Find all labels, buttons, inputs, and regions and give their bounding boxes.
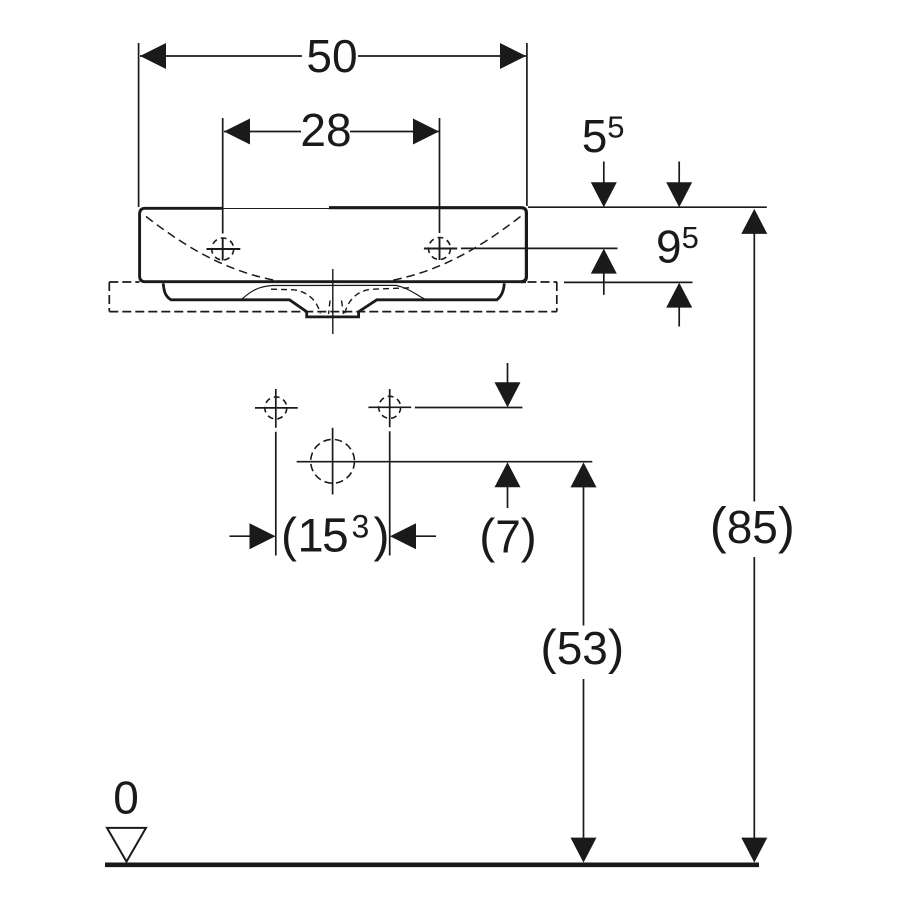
mid fixture horizontal reference line [297,461,593,463]
dimension 28 line right segment [350,131,439,133]
mid fixture tap hole right crosshair horizontal [368,406,411,408]
mid fixture tap hole right crosshair vertical [389,389,391,427]
installation dashed rectangle right edge [556,282,558,312]
dimension 50 line left segment [140,55,302,57]
washbasin inner bowl dashed arc right [387,217,521,282]
svg-text:28: 28 [300,104,351,156]
drain funnel dashed inner left [329,301,331,315]
dimension 85 line lower segment [753,557,755,839]
dimension 7 upper reference line [415,407,523,409]
dimension 50 arrow right [500,43,526,69]
svg-text:(: ( [281,510,297,563]
svg-text:(53): (53) [540,621,624,675]
tap hole left dashed circle [212,238,234,260]
dimension 7 up arrow tail [507,487,509,508]
dimension 9.5 down arrow [666,182,692,207]
installation dashed rectangle top stub left [109,281,139,283]
dimension 85 line upper segment [753,233,755,501]
dimension 5.5 up arrow [591,249,617,274]
dimension 50 extension line right [526,43,528,206]
dimension 5.5 down arrow tail [603,162,605,184]
dimension 50 arrow left [140,43,166,69]
mid fixture large dashed circle [311,439,355,483]
floor line [105,862,759,867]
washbasin inner bowl dashed arc left [146,217,280,282]
dimension 28 arrow right [413,119,439,145]
tap hole right crosshair horizontal [424,248,457,250]
dimension 28 line left segment [224,131,301,133]
svg-text:(85): (85) [710,497,795,554]
dimension 53 bottom arrow [571,838,597,863]
dimension 53 top arrow [571,462,597,487]
svg-text:): ) [374,510,390,563]
svg-text:3: 3 [352,509,370,545]
dimension 5.5 up arrow tail [603,273,605,295]
tap hole left crosshair horizontal [207,248,241,250]
reference line basin bottom height [564,281,693,283]
mid fixture large circle vertical crosshair [332,428,334,495]
reference line rim height [528,206,767,208]
dimension 28 arrow left [224,119,250,145]
dimension 85 top arrow [741,209,767,234]
dimension 15.3 left arrow tail [230,535,252,537]
dimension 53 line lower segment [583,679,585,839]
drain funnel dashed inner right [342,301,344,315]
washbasin lower body with drain boss [163,283,504,317]
tap hole right vertical / dim 28 extension [439,118,441,233]
washbasin interior bottom thin curve [242,285,424,299]
installation dashed rectangle top stub right [528,281,558,283]
mid fixture right extension line [389,431,391,555]
washbasin rim thin top segment [221,208,330,210]
svg-text:0: 0 [113,772,139,824]
dimension 15.3 right arrow tail [415,535,436,537]
dimension 50 extension line left [138,43,140,207]
dimension 7 down arrow tail [507,363,509,383]
dimension 15.3 right arrow [390,523,416,549]
mid fixture left extension line [275,432,277,556]
tap hole left vertical / dim 28 extension [222,118,224,234]
dimension 7 down arrow [495,382,521,407]
dimension 9.5 up arrow tail [678,307,680,327]
tap hole right dashed circle [429,238,451,260]
washbasin centerline [332,269,334,334]
dimension 53 line upper segment [583,487,585,626]
svg-text:1: 1 [298,509,324,562]
installation dashed rectangle bottom edge [109,311,557,313]
drain funnel dashed outer left [271,289,320,313]
installation dashed rectangle left edge [108,282,110,312]
svg-text:(7): (7) [479,511,537,564]
tap hole right crosshair vertical [439,237,441,260]
dimension 5.5 down arrow [591,182,617,207]
drain funnel dashed outer right [345,288,409,314]
svg-text:5: 5 [322,510,349,563]
mid fixture tap hole left dashed circle [265,397,287,419]
dimension 9.5 up arrow [666,283,692,308]
reference line tap hole height [461,247,618,249]
dimension 50 line right segment [358,55,526,57]
dimension 85 bottom arrow [741,838,767,863]
washbasin body outline top-right/right [329,208,526,282]
washbasin body outline left/bottom [140,208,526,281]
dimension 15.3 left arrow [250,523,276,549]
mid fixture tap hole left crosshair vertical [275,389,277,428]
dimension 7 up arrow [495,462,521,487]
mid fixture tap hole left crosshair horizontal [255,407,298,409]
datum triangle [107,828,146,862]
mid fixture tap hole right dashed circle [379,396,401,418]
svg-text:50: 50 [306,30,357,82]
tap hole left crosshair vertical [222,238,224,261]
dimension 9.5 down arrow tail [678,162,680,184]
